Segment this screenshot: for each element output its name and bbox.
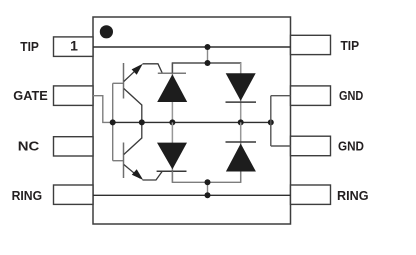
junction dot T column node	[169, 119, 175, 125]
junction dot right node	[268, 119, 274, 125]
wire gate column	[112, 83, 114, 160]
transistor Q2 emitter wire	[124, 165, 140, 179]
pin 6 box (GND right)	[291, 136, 331, 156]
wire collector column	[141, 105, 143, 139]
wire TIP rail drop	[207, 47, 209, 63]
wire GATE pin to node	[93, 96, 113, 123]
wire inner top	[172, 63, 240, 73]
transistor Q1 bar	[123, 63, 125, 99]
transistor Q1 collector wire	[124, 89, 142, 106]
svg-text:TIP: TIP	[20, 39, 39, 54]
wire RING rail (pin4 to pin5)	[93, 194, 291, 196]
wire thyristor column T1	[171, 63, 173, 122]
pin 8 box (TIP right)	[291, 35, 331, 54]
svg-text:GATE: GATE	[13, 88, 48, 103]
wire GND pin6	[271, 145, 291, 147]
transistor Q1 emitter arrowhead	[132, 64, 143, 75]
pin 7 box (GND right)	[291, 86, 331, 106]
pin 4 box (RING)	[54, 185, 94, 204]
wire GND pin7	[271, 95, 291, 97]
IC body U1	[93, 17, 291, 224]
junction dot D column node	[238, 119, 244, 125]
junction dot collector node	[139, 119, 145, 125]
svg-text:GND: GND	[339, 88, 363, 103]
wire RING rail drop	[207, 182, 209, 195]
wire Q1 emitter to T1 gate	[143, 64, 163, 73]
thyristor T1 cathode bar	[158, 72, 186, 74]
wire Q1 base stub	[113, 82, 124, 84]
diode D1 column	[240, 63, 242, 122]
diode D2 column	[240, 122, 242, 182]
thyristor T1 triangle	[157, 74, 187, 102]
thyristor T2 cathode bar	[157, 170, 187, 172]
diode D2 triangle	[226, 144, 256, 172]
wire node row	[113, 121, 271, 123]
junction dot inner bottom	[205, 179, 211, 185]
svg-text:RING: RING	[337, 188, 369, 203]
svg-text:GND: GND	[338, 138, 364, 153]
diode D1 triangle	[226, 73, 256, 101]
transistor Q2 bar	[123, 143, 125, 179]
thyristor T2 triangle	[157, 143, 187, 170]
svg-text:TIP: TIP	[341, 38, 360, 53]
transistor Q2 emitter arrowhead	[132, 169, 143, 180]
svg-text:1: 1	[70, 38, 78, 54]
junction dot TIP rail	[205, 44, 211, 50]
pin 1 box (TIP)	[54, 37, 94, 57]
pin 3 box (NC)	[54, 137, 94, 156]
wire Q2 base stub	[113, 160, 124, 162]
transistor Q2 collector wire	[124, 138, 142, 155]
diode D1 cathode bar	[226, 101, 257, 103]
svg-text:NC: NC	[18, 139, 40, 154]
svg-text:RING: RING	[12, 188, 42, 203]
wire TIP rail (pin1 to pin8)	[93, 46, 291, 48]
junction dot gate node	[110, 119, 116, 125]
transistor Q1 emitter wire	[124, 66, 140, 81]
wire right node column	[270, 96, 272, 146]
wire Q2 emitter to T2 gate	[143, 172, 163, 180]
pin 5 box (RING right)	[291, 185, 331, 204]
diode D2 cathode bar	[226, 141, 257, 143]
junction dot RING rail	[205, 192, 211, 198]
pin 1 indicator dot	[100, 25, 113, 38]
junction dot inner top	[205, 60, 211, 66]
pin 2 box (GATE)	[54, 86, 94, 106]
wire inner bottom	[172, 171, 240, 182]
wire thyristor column T2	[171, 122, 173, 182]
